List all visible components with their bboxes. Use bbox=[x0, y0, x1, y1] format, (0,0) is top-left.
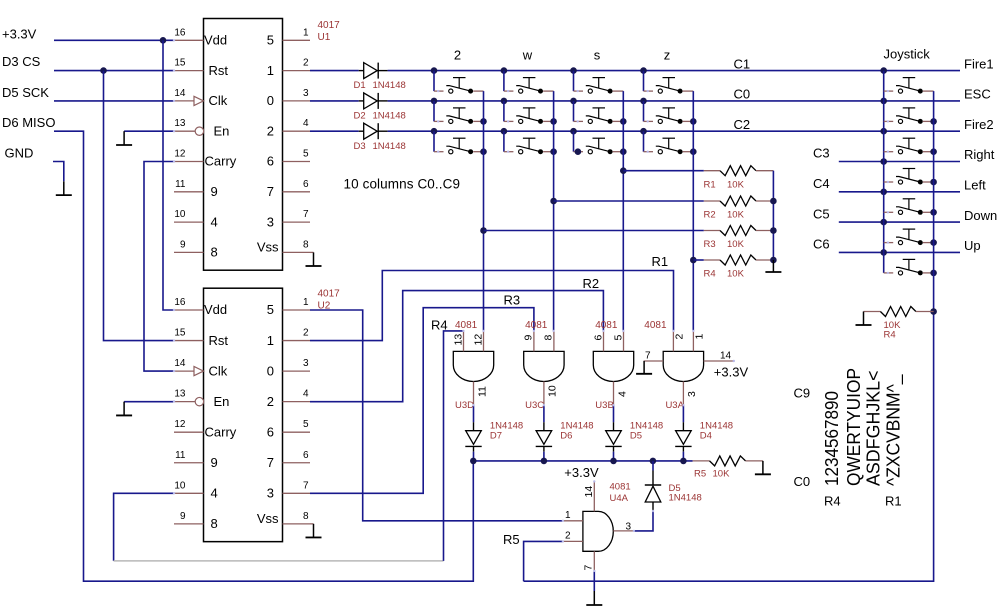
U2 pin 12 (Carry) stub bbox=[174, 431, 204, 433]
U4A pin14 stub +3.3V bbox=[593, 481, 595, 511]
junction dot column z row 3 bbox=[640, 128, 647, 135]
junction dot joystick right line Left bbox=[930, 209, 937, 216]
svg-text:1: 1 bbox=[267, 333, 274, 348]
U1 pin 4 (2) stub bbox=[283, 130, 311, 132]
wire R4 net gray segment bbox=[114, 560, 444, 562]
junction dot column 2 right line row 2 bbox=[480, 118, 487, 125]
wire drop column 2 row 3 bbox=[433, 131, 435, 152]
svg-text:14: 14 bbox=[720, 350, 732, 361]
U1 pin 13 (En) stub bbox=[174, 130, 195, 132]
wire row C0 from D2 to ESC bbox=[388, 100, 960, 102]
junction dot joystick row Down bbox=[880, 219, 887, 226]
svg-text:U3A: U3A bbox=[665, 400, 684, 411]
svg-text:5: 5 bbox=[612, 335, 624, 341]
U3A pin14 +3.3V stub bbox=[704, 360, 734, 362]
svg-text:QWERTYUIOP: QWERTYUIOP bbox=[844, 368, 864, 486]
svg-text:10: 10 bbox=[174, 209, 186, 220]
svg-text:4: 4 bbox=[303, 389, 309, 400]
svg-text:8: 8 bbox=[303, 511, 309, 522]
wire row C6 to joystick bbox=[839, 251, 960, 253]
junction dot joystick row Left bbox=[880, 189, 887, 196]
diode D5 1N4148 at U4A output bbox=[652, 471, 654, 486]
U1 pin 2 (1) stub bbox=[283, 70, 311, 72]
net label R1 wire U2 output 1 to U3A pin2 bbox=[310, 271, 674, 341]
svg-text:z: z bbox=[664, 48, 671, 63]
svg-text:Joystick: Joystick bbox=[884, 47, 931, 62]
junction dot R3 tap on column 2 right line bbox=[480, 227, 487, 234]
svg-text:+3.3V: +3.3V bbox=[2, 26, 37, 41]
svg-text:7: 7 bbox=[583, 565, 595, 571]
wire U1 Carry pin12 to U2 Clk pin14 bbox=[144, 162, 174, 372]
U4A pin2 stub bbox=[563, 540, 583, 542]
U3B input pin stubs bbox=[603, 331, 605, 352]
svg-text:9: 9 bbox=[180, 511, 186, 522]
svg-text:ASDFGHJKL<: ASDFGHJKL< bbox=[863, 371, 883, 487]
switch key column z row 2 bbox=[644, 120, 654, 122]
svg-text:2: 2 bbox=[674, 334, 686, 340]
wire row C3 to joystick bbox=[839, 161, 960, 163]
svg-text:10: 10 bbox=[547, 385, 559, 397]
svg-text:U4A: U4A bbox=[610, 493, 629, 504]
junction dot column 2 row 3 bbox=[431, 128, 438, 135]
svg-text:C2: C2 bbox=[734, 117, 751, 132]
svg-text:2: 2 bbox=[565, 531, 571, 542]
svg-text:1N4148: 1N4148 bbox=[490, 420, 523, 431]
ground symbol GND net bbox=[63, 181, 65, 195]
svg-text:10K: 10K bbox=[713, 469, 731, 480]
junction dot column s switch3 left bbox=[575, 148, 582, 155]
svg-text:U3D: U3D bbox=[455, 400, 474, 411]
wire drop column w row 1 bbox=[503, 71, 505, 92]
svg-text:D3: D3 bbox=[354, 141, 366, 152]
svg-text:U3C: U3C bbox=[525, 400, 544, 411]
svg-text:3: 3 bbox=[267, 214, 274, 229]
pin junction marks bbox=[562, 520, 564, 522]
svg-text:ESC: ESC bbox=[964, 87, 991, 102]
svg-text:R1: R1 bbox=[704, 179, 716, 190]
svg-text:C5: C5 bbox=[813, 206, 830, 221]
svg-text:C0: C0 bbox=[794, 474, 811, 489]
wire U1 output to diode D2 bbox=[310, 100, 359, 102]
svg-text:5: 5 bbox=[267, 302, 274, 317]
svg-text:11: 11 bbox=[175, 450, 186, 461]
net label R2 wire U2 output 2 to U3B pin6 bbox=[310, 291, 603, 402]
svg-text:14: 14 bbox=[174, 358, 186, 369]
wire drop column 2 row 2 bbox=[433, 101, 435, 122]
U3A input pin stubs bbox=[672, 331, 674, 352]
svg-text:5: 5 bbox=[303, 149, 309, 160]
svg-text:4: 4 bbox=[616, 391, 628, 397]
wire column z right line down to gate input bbox=[692, 91, 694, 331]
svg-text:10K: 10K bbox=[727, 239, 745, 250]
diode D1 1N4148 bbox=[359, 70, 364, 72]
wire gate output to diode D6 bbox=[543, 405, 545, 422]
wire resistor common rail bbox=[772, 171, 774, 260]
switch joystick ESC bbox=[884, 120, 894, 122]
svg-text:7: 7 bbox=[645, 350, 651, 361]
U1 pin 1 (5) stub bbox=[283, 39, 311, 41]
wire U2 output 5 to U4A pin1 bbox=[310, 310, 563, 521]
svg-text:7: 7 bbox=[267, 184, 274, 199]
svg-text:Carry: Carry bbox=[205, 424, 237, 439]
wire D3 CS to U1 Rst pin15 bbox=[54, 70, 174, 72]
svg-text:8: 8 bbox=[211, 245, 218, 260]
svg-text:R2: R2 bbox=[583, 276, 600, 291]
resistor R4 10K bbox=[704, 259, 720, 261]
diode D3 1N4148 bbox=[359, 130, 364, 132]
svg-text:8: 8 bbox=[211, 516, 218, 531]
svg-text:4081: 4081 bbox=[644, 320, 667, 331]
wire drop column s row 1 bbox=[573, 71, 575, 92]
svg-text:1N4148: 1N4148 bbox=[669, 492, 702, 503]
junction dot joystick row Fire2 bbox=[880, 128, 887, 135]
svg-text:R2: R2 bbox=[704, 210, 716, 221]
svg-text:6: 6 bbox=[303, 450, 309, 461]
svg-text:s: s bbox=[594, 48, 601, 63]
svg-text:10K: 10K bbox=[727, 210, 745, 221]
svg-text:16: 16 bbox=[174, 27, 186, 38]
wire R4 net up to U3D pin13 bbox=[444, 331, 464, 561]
svg-text:Carry: Carry bbox=[205, 154, 237, 169]
wire column s right line down to gate input bbox=[622, 91, 624, 331]
svg-text:6: 6 bbox=[592, 335, 604, 341]
junction dot joystick right line Up bbox=[930, 270, 937, 277]
svg-text:4: 4 bbox=[303, 118, 309, 129]
ground symbol U4A pin7 bbox=[593, 591, 595, 605]
svg-text:R4: R4 bbox=[704, 269, 716, 280]
AND gate U3B 4081 bbox=[593, 351, 633, 381]
switch key column z row 1 bbox=[644, 90, 654, 92]
wire gate output to diode D7 bbox=[473, 405, 475, 422]
junction dot joystick row Right bbox=[880, 158, 887, 165]
svg-text:C9: C9 bbox=[794, 386, 811, 401]
svg-text:1N4148: 1N4148 bbox=[373, 141, 406, 152]
U1 pin 5 (6) stub bbox=[283, 161, 311, 163]
svg-text:D7: D7 bbox=[490, 431, 502, 442]
junction node D3 CS bbox=[100, 67, 107, 74]
svg-text:5: 5 bbox=[303, 419, 309, 430]
svg-text:2: 2 bbox=[267, 394, 274, 409]
switch key column w row 2 bbox=[504, 120, 514, 122]
svg-text:U1: U1 bbox=[318, 32, 331, 43]
wire row C5 to joystick bbox=[839, 221, 960, 223]
switch joystick Left bbox=[884, 211, 894, 213]
svg-text:GND: GND bbox=[5, 146, 34, 161]
wire U1 En pin13 to ground bbox=[124, 130, 174, 132]
ground symbol U2 En bbox=[123, 402, 125, 416]
svg-text:15: 15 bbox=[174, 328, 186, 339]
junction dot column z right line row 2 bbox=[690, 118, 697, 125]
svg-text:1: 1 bbox=[267, 63, 274, 78]
svg-text:1N4148: 1N4148 bbox=[700, 420, 733, 431]
svg-text:Fire1: Fire1 bbox=[964, 56, 994, 71]
svg-text:10 columns C0..C9: 10 columns C0..C9 bbox=[344, 176, 461, 191]
svg-text:12: 12 bbox=[174, 149, 186, 160]
IC U1 4017 decade counter body bbox=[204, 19, 283, 271]
svg-text:1: 1 bbox=[303, 27, 309, 38]
junction dot joystick row Fire1 bbox=[880, 67, 887, 74]
svg-text:5: 5 bbox=[267, 33, 274, 48]
junction dot column s row 1 bbox=[570, 67, 577, 74]
svg-text:C6: C6 bbox=[813, 237, 830, 252]
wire column 2 right line down to gate input bbox=[483, 91, 485, 331]
U1 pin 3 (0) stub bbox=[283, 100, 311, 102]
wire drop column 2 row 1 bbox=[433, 71, 435, 92]
U2 pin 8 (Vss) stub bbox=[283, 523, 311, 525]
switch joystick Right bbox=[884, 181, 894, 183]
svg-text:10K: 10K bbox=[727, 179, 745, 190]
U2 pin 10 (4) stub bbox=[174, 492, 204, 494]
svg-text:C0: C0 bbox=[734, 87, 751, 102]
svg-text:Fire2: Fire2 bbox=[964, 117, 994, 132]
svg-text:13: 13 bbox=[174, 118, 186, 129]
svg-text:6: 6 bbox=[267, 154, 274, 169]
U3D input pin stubs bbox=[463, 331, 465, 352]
U1 pin 16 (Vdd) stub bbox=[174, 39, 204, 41]
svg-text:C4: C4 bbox=[813, 176, 830, 191]
wire joystick left line bbox=[883, 71, 885, 273]
junction dot column z right line row 3 bbox=[690, 148, 697, 155]
svg-text:2: 2 bbox=[267, 123, 274, 138]
svg-text:1N4148: 1N4148 bbox=[630, 420, 663, 431]
svg-text:En: En bbox=[214, 123, 230, 138]
wire column line to resistor R2 bbox=[554, 200, 704, 202]
svg-text:9: 9 bbox=[523, 335, 535, 341]
junction dot column 2 right line row 3 bbox=[480, 148, 487, 155]
U4A pin3 output stub bbox=[613, 530, 634, 532]
junction dot column s right line row 3 bbox=[620, 148, 627, 155]
resistor R5 10K on bus bbox=[693, 460, 710, 462]
switch joystick Up bbox=[884, 272, 894, 274]
switch key column 2 row 2 bbox=[434, 120, 444, 122]
svg-text:9: 9 bbox=[211, 184, 218, 199]
switch key column w row 3 bbox=[504, 151, 514, 153]
switch key column s row 1 bbox=[574, 90, 584, 92]
wire drop column z row 3 bbox=[643, 131, 645, 152]
diode D7 1N4148 bbox=[473, 422, 475, 431]
svg-text:12: 12 bbox=[472, 334, 484, 346]
junction dot column w row 2 bbox=[501, 98, 508, 105]
resistor R4 10K joystick pulldown bbox=[864, 311, 881, 313]
svg-text:11: 11 bbox=[476, 386, 488, 397]
svg-text:16: 16 bbox=[174, 297, 186, 308]
junction dot column z row 1 bbox=[640, 67, 647, 74]
svg-text:C3: C3 bbox=[813, 146, 830, 161]
wire D5 SCK to U1 Clk pin14 bbox=[54, 100, 174, 102]
junction dot column 2 row 1 bbox=[431, 67, 438, 74]
svg-text:3: 3 bbox=[303, 88, 309, 99]
wire column w right line down to gate input bbox=[553, 91, 555, 331]
svg-text:R4: R4 bbox=[884, 330, 896, 341]
junction dot joystick right line Fire2 bbox=[930, 148, 937, 155]
svg-text:13: 13 bbox=[452, 334, 464, 346]
svg-text:13: 13 bbox=[174, 389, 186, 400]
U2 pin 5 (6) stub bbox=[283, 431, 311, 433]
junction dot joystick pulldown R4 bbox=[930, 308, 937, 315]
junction dot R4 tap on column z right line bbox=[690, 257, 697, 264]
junction dot column s right line row 2 bbox=[620, 118, 627, 125]
svg-text:1N4148: 1N4148 bbox=[373, 111, 406, 122]
svg-text:14: 14 bbox=[583, 486, 595, 498]
switch key column 2 row 3 bbox=[434, 151, 444, 153]
svg-text:15: 15 bbox=[174, 58, 186, 69]
svg-text:R5: R5 bbox=[503, 532, 520, 547]
U4A pin1 stub bbox=[563, 520, 583, 522]
U3C input pin stubs bbox=[533, 331, 535, 352]
svg-text:4081: 4081 bbox=[525, 320, 548, 331]
U3B output pin 4 stub bbox=[613, 382, 615, 406]
junction dot column 2 row 2 bbox=[431, 98, 438, 105]
svg-text:Left: Left bbox=[964, 178, 986, 193]
wire row C2 from D3 to Fire2 bbox=[388, 130, 960, 132]
svg-text:9: 9 bbox=[180, 239, 186, 250]
U3D output pin 11 stub bbox=[473, 382, 475, 406]
svg-text:4: 4 bbox=[211, 486, 218, 501]
svg-text:D1: D1 bbox=[354, 80, 366, 91]
AND gate U3C 4081 bbox=[524, 351, 564, 381]
U2 pin 7 (3) stub bbox=[283, 492, 311, 494]
switch joystick Fire1 bbox=[884, 90, 894, 92]
svg-text:+3.3V: +3.3V bbox=[564, 465, 599, 480]
diode D6 1N4148 bbox=[543, 422, 545, 431]
svg-text:3: 3 bbox=[267, 486, 274, 501]
junction dot column z row 2 bbox=[640, 98, 647, 105]
resistor R3 10K bbox=[704, 230, 720, 232]
svg-text:Clk: Clk bbox=[209, 93, 228, 108]
switch joystick Fire2 bbox=[884, 151, 894, 153]
IC U2 4017 decade counter body bbox=[204, 288, 283, 541]
wire gate output to diode D4 bbox=[682, 405, 684, 422]
AND gate U3D 4081 bbox=[453, 351, 493, 381]
svg-text:8: 8 bbox=[543, 335, 555, 341]
U2 pin 13 (En) stub bbox=[174, 401, 195, 403]
U1 pin 15 (Rst) stub bbox=[174, 70, 204, 72]
U2 pin 15 (Rst) stub bbox=[174, 340, 204, 342]
svg-text:D6 MISO: D6 MISO bbox=[2, 115, 55, 130]
svg-text:2: 2 bbox=[303, 58, 309, 69]
junction dot R2 tap on column w right line bbox=[550, 198, 557, 205]
svg-text:1: 1 bbox=[303, 297, 309, 308]
svg-text:3: 3 bbox=[625, 522, 631, 533]
junction dot R1 tap on column s right line bbox=[620, 167, 627, 174]
U3A output pin 3 stub bbox=[682, 382, 684, 406]
wire column line to resistor R3 bbox=[484, 230, 704, 232]
svg-text:8: 8 bbox=[303, 239, 309, 250]
svg-text:7: 7 bbox=[267, 455, 274, 470]
svg-text:Clk: Clk bbox=[209, 363, 228, 378]
junction dot joystick right line Down bbox=[930, 239, 937, 246]
U1 pin 14 (Clk) stub bbox=[174, 100, 194, 102]
diode D4 1N4148 bbox=[682, 422, 684, 431]
svg-text:R1: R1 bbox=[885, 494, 902, 509]
ground symbol R5 bbox=[762, 461, 764, 474]
svg-text:2: 2 bbox=[454, 48, 461, 63]
svg-text:D5: D5 bbox=[630, 431, 642, 442]
svg-text:^ZXCVBNM^_: ^ZXCVBNM^_ bbox=[883, 374, 904, 486]
junction node +3.3V rail bbox=[160, 37, 167, 44]
svg-text:En: En bbox=[214, 394, 230, 409]
svg-text:R4: R4 bbox=[824, 494, 841, 509]
junction dot column w right line row 2 bbox=[550, 118, 557, 125]
U1 pin 12 (Carry) stub bbox=[174, 161, 204, 163]
ground symbol U2 Vss pin8 bbox=[310, 523, 314, 525]
wire row C1 from D1 to Fire1 bbox=[388, 70, 960, 72]
U3A pin7 ground stub bbox=[644, 360, 664, 362]
svg-text:R4: R4 bbox=[431, 317, 448, 332]
svg-text:4: 4 bbox=[211, 214, 218, 229]
svg-text:R1: R1 bbox=[652, 254, 669, 269]
junction dot column s row 2 bbox=[570, 98, 577, 105]
svg-text:D2: D2 bbox=[354, 111, 366, 122]
switch key column 2 row 1 bbox=[434, 90, 444, 92]
svg-text:D5 SCK: D5 SCK bbox=[2, 85, 49, 100]
svg-text:D3 CS: D3 CS bbox=[2, 54, 41, 69]
junction dot column s row 3 bbox=[570, 128, 577, 135]
U2 pin 14 (Clk) stub bbox=[174, 370, 194, 372]
svg-text:11: 11 bbox=[175, 179, 186, 190]
AND gate U4A 4081 bbox=[583, 511, 613, 551]
svg-text:D4: D4 bbox=[700, 431, 712, 442]
ground symbol U3A pin7 bbox=[643, 361, 645, 374]
U2 pin 9 (8) stub bbox=[174, 523, 204, 525]
wire drop column w row 3 bbox=[503, 131, 505, 152]
wire U2 pin10 output 4 (R4 net) down bbox=[114, 493, 174, 561]
wire drop column s row 2 bbox=[573, 101, 575, 122]
wire column line to resistor R1 bbox=[623, 170, 704, 172]
junction dot column w row 3 bbox=[501, 128, 508, 135]
svg-text:1234567890: 1234567890 bbox=[822, 391, 842, 486]
ground symbol U1 Vss pin8 bbox=[310, 251, 314, 253]
svg-text:7: 7 bbox=[303, 209, 309, 220]
svg-text:C1: C1 bbox=[734, 56, 751, 71]
svg-text:4017: 4017 bbox=[318, 289, 341, 300]
svg-text:Rst: Rst bbox=[209, 63, 229, 78]
switch key column z row 3 bbox=[644, 151, 654, 153]
junction dots resistor rail bbox=[770, 198, 777, 205]
wire row C4 to joystick bbox=[839, 191, 960, 193]
diode D5 1N4148 bbox=[613, 422, 615, 431]
wire MISO diode bus bbox=[473, 460, 692, 462]
junction dot joystick right line ESC bbox=[930, 118, 937, 125]
svg-text:10K: 10K bbox=[727, 269, 745, 280]
switch key column s row 2 bbox=[574, 120, 584, 122]
U2 pin 11 (9) stub bbox=[174, 462, 204, 464]
ground symbol U1 En bbox=[123, 131, 125, 145]
junction dot column w row 1 bbox=[501, 67, 508, 74]
wire drop column s row 3 bbox=[573, 131, 575, 152]
switch key column s row 3 bbox=[574, 151, 584, 153]
svg-text:D6: D6 bbox=[560, 431, 572, 442]
svg-text:Vss: Vss bbox=[257, 239, 279, 254]
svg-text:1N4148: 1N4148 bbox=[373, 80, 406, 91]
resistor R2 10K bbox=[704, 200, 720, 202]
wire drop column z row 1 bbox=[643, 71, 645, 92]
wire column line to resistor R4 bbox=[693, 259, 704, 261]
U2 pin 6 (7) stub bbox=[283, 462, 311, 464]
ground symbol resistor rail bbox=[772, 260, 774, 272]
svg-text:4081: 4081 bbox=[610, 482, 631, 493]
junction dot joystick row Up bbox=[880, 249, 887, 256]
svg-text:1: 1 bbox=[565, 510, 571, 521]
svg-text:R3: R3 bbox=[704, 239, 716, 250]
svg-text:3: 3 bbox=[303, 358, 309, 369]
svg-text:14: 14 bbox=[174, 88, 186, 99]
svg-text:10: 10 bbox=[174, 480, 186, 491]
wire drop column w row 2 bbox=[503, 101, 505, 122]
svg-text:Vdd: Vdd bbox=[204, 302, 227, 317]
wire U2 En pin13 to ground bbox=[124, 401, 174, 403]
U1 pin 7 (3) stub bbox=[283, 221, 311, 223]
